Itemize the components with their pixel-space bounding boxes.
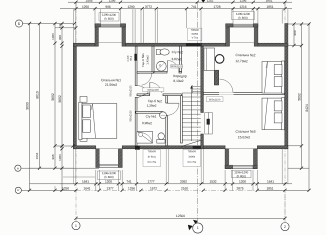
svg-text:741: 741 (191, 5, 197, 9)
svg-text:1250: 1250 (82, 5, 89, 9)
svg-text:15,02м2: 15,02м2 (238, 135, 251, 139)
svg-text:3,90м2: 3,90м2 (142, 121, 152, 125)
svg-text:512: 512 (59, 23, 62, 28)
svg-text:1196: 1196 (240, 0, 247, 3)
svg-text:1532: 1532 (209, 180, 216, 184)
svg-text:V-70к: V-70к (192, 37, 199, 40)
svg-text:5692: 5692 (58, 95, 62, 103)
svg-text:1216: 1216 (239, 5, 246, 9)
svg-text:12,78м2: 12,78м2 (235, 59, 248, 63)
svg-text:785х80: 785х80 (191, 29, 200, 32)
svg-text:1: 1 (197, 226, 199, 230)
svg-text:800х2100: 800х2100 (209, 97, 221, 101)
svg-text:1672: 1672 (150, 186, 157, 190)
svg-text:1377: 1377 (106, 186, 113, 190)
svg-text:Спальня №2: Спальня №2 (235, 53, 255, 57)
svg-text:900х2100: 900х2100 (147, 88, 159, 92)
svg-text:Спальня №1: Спальня №1 (101, 78, 121, 82)
svg-text:1777: 1777 (147, 180, 154, 184)
svg-text:А: А (17, 166, 19, 170)
svg-text:741: 741 (126, 180, 132, 184)
svg-text:800х2100: 800х2100 (171, 64, 183, 68)
svg-text:3,82м2: 3,82м2 (172, 57, 182, 61)
svg-text:1152: 1152 (207, 0, 214, 3)
svg-text:900х2100: 900х2100 (130, 85, 133, 97)
svg-text:(h 800): (h 800) (237, 174, 246, 178)
svg-text:1290: 1290 (127, 5, 134, 9)
svg-text:1,39м2: 1,39м2 (147, 104, 157, 108)
svg-text:12500: 12500 (176, 214, 185, 218)
svg-text:998: 998 (51, 154, 55, 159)
svg-text:1066: 1066 (51, 33, 55, 40)
svg-text:1,42м2: 1,42м2 (146, 55, 150, 65)
svg-text:(h 800): (h 800) (104, 17, 113, 21)
svg-text:1250: 1250 (62, 186, 69, 190)
svg-text:1851: 1851 (265, 0, 272, 3)
svg-text:(h 916): (h 916) (148, 156, 156, 159)
svg-text:1200: 1200 (239, 180, 246, 184)
svg-text:2092: 2092 (180, 180, 187, 184)
svg-text:1066: 1066 (58, 154, 62, 161)
svg-text:2875: 2875 (236, 186, 243, 190)
svg-text:(h 800): (h 800) (104, 175, 113, 179)
svg-text:Спальня №3: Спальня №3 (235, 130, 255, 134)
svg-text:9600: 9600 (25, 102, 29, 110)
svg-text:900: 900 (293, 30, 297, 35)
svg-text:ТВ-2: ТВ-2 (131, 55, 133, 61)
svg-text:1641: 1641 (267, 180, 274, 184)
svg-text:996: 996 (105, 5, 111, 9)
svg-text:С/у №1: С/у №1 (146, 114, 157, 118)
svg-text:3772: 3772 (145, 5, 152, 9)
svg-text:2160: 2160 (181, 186, 188, 190)
svg-text:8610: 8610 (35, 91, 39, 99)
svg-text:0,318: 0,318 (128, 55, 130, 61)
svg-text:1200: 1200 (105, 180, 112, 184)
svg-text:8,13м2: 8,13м2 (173, 79, 183, 83)
svg-text:1196: 1196 (109, 0, 116, 3)
svg-text:Гар-б №2: Гар-б №2 (148, 99, 162, 103)
svg-text:785х95: 785х95 (148, 150, 157, 153)
svg-text:Усл 70к: Усл 70к (147, 161, 157, 164)
svg-text:1556: 1556 (85, 0, 92, 3)
svg-text:785х95: 785х95 (188, 150, 197, 153)
svg-text:1296: 1296 (128, 186, 135, 190)
svg-text:2: 2 (284, 225, 286, 229)
svg-text:Коридор: Коридор (173, 74, 187, 78)
svg-text:21,56м2: 21,56м2 (105, 83, 118, 87)
svg-text:1641: 1641 (83, 186, 90, 190)
svg-text:Гар-б №1: Гар-б №1 (141, 53, 145, 67)
svg-text:3х954: 3х954 (191, 33, 198, 36)
svg-text:Усл 70к: Усл 70к (187, 161, 197, 164)
svg-text:5692: 5692 (51, 93, 55, 101)
svg-text:1851: 1851 (266, 186, 273, 190)
svg-text:С/у №2: С/у №2 (172, 50, 183, 54)
svg-text:1064: 1064 (35, 152, 39, 159)
svg-text:998: 998 (58, 35, 62, 40)
svg-text:900х2100: 900х2100 (130, 110, 133, 122)
svg-text:1728: 1728 (213, 5, 220, 9)
svg-text:1851: 1851 (266, 5, 273, 9)
svg-text:3х954: 3х954 (188, 156, 195, 159)
svg-text:8424: 8424 (305, 104, 309, 112)
svg-text:1: 1 (75, 224, 77, 228)
svg-text:(h 800): (h 800) (238, 16, 247, 20)
svg-text:5692: 5692 (297, 93, 301, 101)
svg-text:1641: 1641 (82, 180, 89, 184)
